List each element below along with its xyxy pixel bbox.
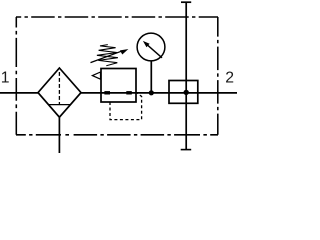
regulator R1 body bbox=[101, 69, 136, 103]
blocked end cap top bbox=[181, 1, 191, 3]
wire: line from filter through regulator and block to port 2 bbox=[81, 92, 237, 94]
assembly enclosure right boundary (dash-dot) bbox=[217, 17, 219, 135]
regulator R1 pilot line (dashed) bbox=[110, 93, 142, 119]
filter F1 element (dashed centerline) bbox=[58, 72, 60, 104]
filter F1 separator chord bbox=[49, 104, 70, 106]
svg-text:1: 1 bbox=[1, 70, 10, 87]
junction dot in block B1 bbox=[184, 90, 189, 95]
pressure gauge G1 dial bbox=[137, 33, 165, 61]
wire: condensate drain line bbox=[58, 117, 60, 153]
assembly enclosure top boundary (dash-dot) bbox=[16, 16, 218, 18]
assembly enclosure bottom boundary (dash-dot) bbox=[16, 134, 218, 136]
regulator R1 adjustment arrow shaft bbox=[91, 51, 123, 63]
blocked end cap bottom bbox=[181, 149, 192, 151]
assembly enclosure left boundary (dash-dot) bbox=[15, 17, 17, 135]
distributor block B1 bbox=[169, 81, 198, 104]
regulator R1 adjustment arrow head bbox=[120, 49, 128, 55]
pressure gauge G1 needle bbox=[147, 44, 163, 58]
wire: inlet line from port 1 to filter bbox=[0, 92, 38, 94]
regulator R1 seat mark left bbox=[104, 91, 110, 94]
pressure gauge G1 needle head bbox=[143, 41, 150, 47]
regulator R1 seat mark right bbox=[126, 91, 132, 94]
filter F1 with water separator (diamond) bbox=[38, 68, 81, 117]
svg-text:2: 2 bbox=[225, 70, 234, 87]
regulator R1 adjustment spring bbox=[97, 45, 118, 66]
wire: vertical branch line bbox=[185, 2, 187, 149]
wire: gauge stem bbox=[150, 61, 152, 93]
junction dot at gauge tap bbox=[149, 90, 154, 95]
regulator R1 vent triangle bbox=[92, 72, 100, 79]
